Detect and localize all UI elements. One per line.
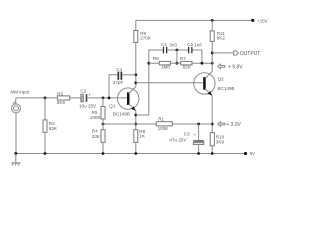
svg-text:100K: 100K (90, 115, 102, 120)
node junction base / R5 (102, 97, 105, 100)
svg-text:+15V: +15V (257, 18, 267, 23)
wire C2 to Q1 base (87, 97, 127, 99)
svg-text:BC149B: BC149B (218, 86, 235, 91)
transistor Q2 emitter diagonal (205, 89, 212, 96)
transistor Q1 base bar (127, 92, 130, 105)
wire Q1 emitter column (135, 111, 137, 130)
svg-text:33K: 33K (92, 134, 101, 139)
svg-text:3n3: 3n3 (169, 43, 177, 48)
transistor Q1 emitter diagonal (129, 104, 136, 111)
wire C4 to middle node (167, 49, 188, 51)
node junction rail / R10 (211, 152, 214, 155)
svg-text:100K: 100K (158, 126, 170, 131)
svg-text:1K: 1K (139, 134, 146, 139)
resistor R1 (156, 122, 172, 126)
wire output (212, 52, 233, 54)
svg-text:Q2: Q2 (218, 77, 225, 82)
wire R6 to R7 (171, 62, 181, 64)
svg-text:3K9: 3K9 (216, 139, 225, 144)
transistor Q2 base bar (203, 77, 206, 90)
node junction base / C1 (108, 97, 111, 100)
svg-text:+ 3.0V: + 3.0V (226, 122, 241, 128)
svg-text:270K: 270K (140, 35, 152, 40)
wire feedback lower link (136, 50, 163, 115)
svg-text:82K: 82K (49, 126, 58, 131)
node junction C4-C5 (176, 49, 179, 52)
node junction C1 right (134, 73, 137, 76)
resistor R11 (210, 31, 214, 42)
node junction Q2 emitter / R1 line (211, 123, 214, 126)
transistor Q1 collector diagonal (129, 87, 136, 94)
node junction emitter / R1 line (134, 123, 137, 126)
wire C3 column (198, 124, 200, 140)
wire R8 to rail (135, 142, 137, 153)
wire network middle vertical (176, 50, 178, 63)
svg-text:1M8: 1M8 (161, 65, 170, 70)
node junction rail / C3 (197, 152, 200, 155)
svg-text:Q1: Q1 (109, 104, 116, 109)
wire R11 column upper (211, 20, 213, 31)
wire R4 to rail (102, 142, 104, 153)
node junction Q1 collector / Q2 base (134, 81, 137, 84)
capacitor C1 (118, 72, 120, 80)
svg-text:R3: R3 (57, 91, 63, 96)
node junction R4-R5 (102, 123, 105, 126)
wire C1 left branch (109, 75, 118, 98)
capacitor C4 (163, 47, 164, 53)
svg-text:+: + (88, 92, 91, 97)
svg-text:+: + (194, 132, 197, 137)
svg-text:0V: 0V (250, 151, 255, 156)
capacitor C3 electrolytic (193, 140, 204, 141)
voltage arrow +9.8V (218, 64, 225, 68)
node junction C3 top (197, 123, 200, 126)
wire C3 to rail (198, 144, 200, 153)
wire R2 column (44, 98, 46, 120)
resistor R5 (101, 107, 105, 120)
wire R5 to junction (102, 119, 104, 130)
svg-text:47pF: 47pF (113, 80, 124, 85)
wire R10 to rail (211, 146, 213, 154)
wire R7 to Q2 collector column (192, 62, 212, 64)
wire C1 right (122, 74, 136, 76)
node +15V terminal (251, 19, 254, 22)
transistor Q2 emitter arrow (208, 91, 213, 95)
wire R9 to Q1 collector (135, 43, 137, 88)
svg-text:+ 9.8V: + 9.8V (228, 64, 243, 70)
node junction rail / ground (14, 152, 17, 155)
resistor R6 (159, 61, 170, 65)
wire R9 column upper (135, 20, 137, 30)
transistor Q2 collector diagonal (205, 71, 212, 78)
svg-text:BC149B: BC149B (113, 111, 130, 116)
wire Q1 collector to Q2 base (136, 82, 203, 84)
svg-text:OUTPUT: OUTPUT (240, 51, 261, 57)
node junction rail / R8 (134, 152, 137, 155)
svg-text:R4: R4 (92, 128, 98, 133)
wire C5 right corner (193, 50, 202, 63)
resistor R4 (101, 130, 105, 143)
node junction top rail / R11 (211, 19, 214, 22)
node junction R6-R7 (176, 62, 179, 65)
svg-text:C5: C5 (187, 42, 193, 47)
connector MM input jack (15, 98, 17, 104)
node junction output (211, 52, 214, 55)
resistor R9 (134, 31, 138, 43)
resistor R3 (57, 96, 69, 100)
node junction rail / R2 (44, 152, 47, 155)
node 0V terminal (244, 152, 247, 155)
wire Q2 emitter column (211, 96, 213, 133)
transistor Q1 emitter arrow (131, 106, 136, 110)
wire R1 line left (103, 123, 156, 125)
wire +15V top rail (136, 19, 253, 21)
node junction emitter / feedback (134, 114, 137, 117)
resistor R8 (134, 130, 138, 143)
svg-text:R6: R6 (153, 56, 159, 61)
svg-text:C2: C2 (80, 89, 86, 94)
wire R1 line right (172, 123, 212, 125)
svg-text:3K9: 3K9 (57, 100, 66, 105)
resistor R2 (43, 120, 47, 132)
wire R11 to Q2 collector (211, 41, 213, 71)
node junction network left / R6 (147, 62, 150, 65)
resistor R7 (181, 61, 192, 65)
svg-text:10u 25V: 10u 25V (79, 103, 97, 108)
capacitor C2 electrolytic (81, 94, 83, 102)
wire R5 column (102, 98, 104, 107)
svg-text:C1: C1 (116, 67, 122, 72)
ground (15, 154, 17, 164)
resistor R10 (210, 133, 214, 146)
wire 0V bottom rail (16, 153, 246, 155)
voltage arrow +3.0V (218, 122, 225, 126)
svg-text:8K2: 8K2 (217, 36, 226, 41)
wire input jack to rail (15, 113, 17, 154)
svg-text:C3: C3 (184, 132, 190, 137)
svg-text:MM input: MM input (10, 90, 30, 95)
capacitor C5 (188, 47, 189, 53)
svg-text:R7: R7 (180, 56, 186, 61)
svg-text:1nF: 1nF (194, 43, 202, 48)
node junction network right (201, 62, 204, 65)
transistor Q1 circle (118, 88, 139, 109)
svg-text:R1: R1 (158, 117, 164, 122)
svg-text:C4: C4 (161, 42, 167, 47)
node junction collector column / network (211, 62, 214, 65)
wire R6 row (149, 62, 160, 64)
wire R2 to rail (44, 132, 46, 153)
transistor Q2 circle (194, 73, 215, 94)
wire R3 to C2 (70, 97, 81, 99)
node junction input / R2 (44, 97, 47, 100)
output arrow symbol (234, 51, 239, 55)
node junction rail / R4 (102, 152, 105, 155)
svg-text:82K: 82K (183, 65, 192, 70)
svg-text:47u 25V: 47u 25V (169, 137, 187, 142)
wire input node to R3 (16, 97, 58, 99)
